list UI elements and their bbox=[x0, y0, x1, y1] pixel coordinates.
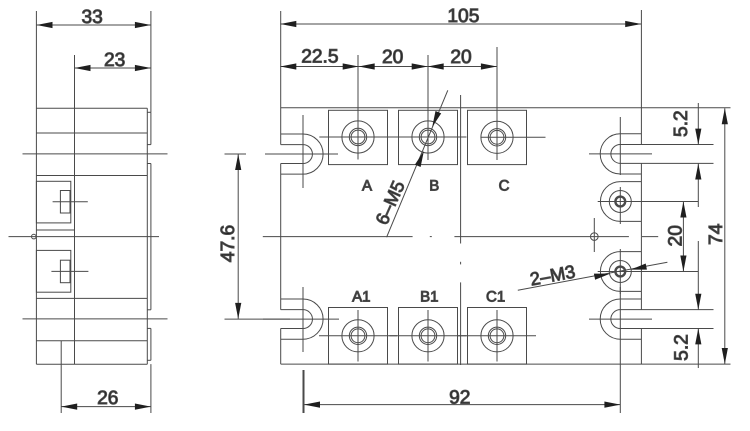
svg-text:C1: C1 bbox=[486, 288, 505, 305]
svg-text:105: 105 bbox=[447, 6, 479, 27]
svg-text:20: 20 bbox=[450, 47, 471, 68]
svg-text:20: 20 bbox=[666, 225, 687, 246]
svg-text:26: 26 bbox=[97, 388, 118, 409]
svg-text:B: B bbox=[429, 178, 439, 195]
svg-text:B1: B1 bbox=[420, 288, 438, 305]
svg-text:5.2: 5.2 bbox=[671, 110, 692, 137]
svg-text:A: A bbox=[362, 178, 372, 195]
svg-text:92: 92 bbox=[449, 388, 470, 409]
svg-text:23: 23 bbox=[104, 50, 125, 71]
svg-text:20: 20 bbox=[382, 47, 403, 68]
svg-text:74: 74 bbox=[706, 223, 727, 245]
svg-text:33: 33 bbox=[82, 7, 103, 28]
svg-text:47.6: 47.6 bbox=[218, 225, 239, 262]
svg-text:6–M5: 6–M5 bbox=[371, 177, 409, 227]
svg-text:2–M3: 2–M3 bbox=[528, 261, 577, 290]
svg-text:22.5: 22.5 bbox=[301, 47, 338, 68]
svg-text:C: C bbox=[499, 178, 510, 195]
svg-text:5.2: 5.2 bbox=[672, 334, 693, 361]
svg-text:A1: A1 bbox=[352, 288, 370, 305]
